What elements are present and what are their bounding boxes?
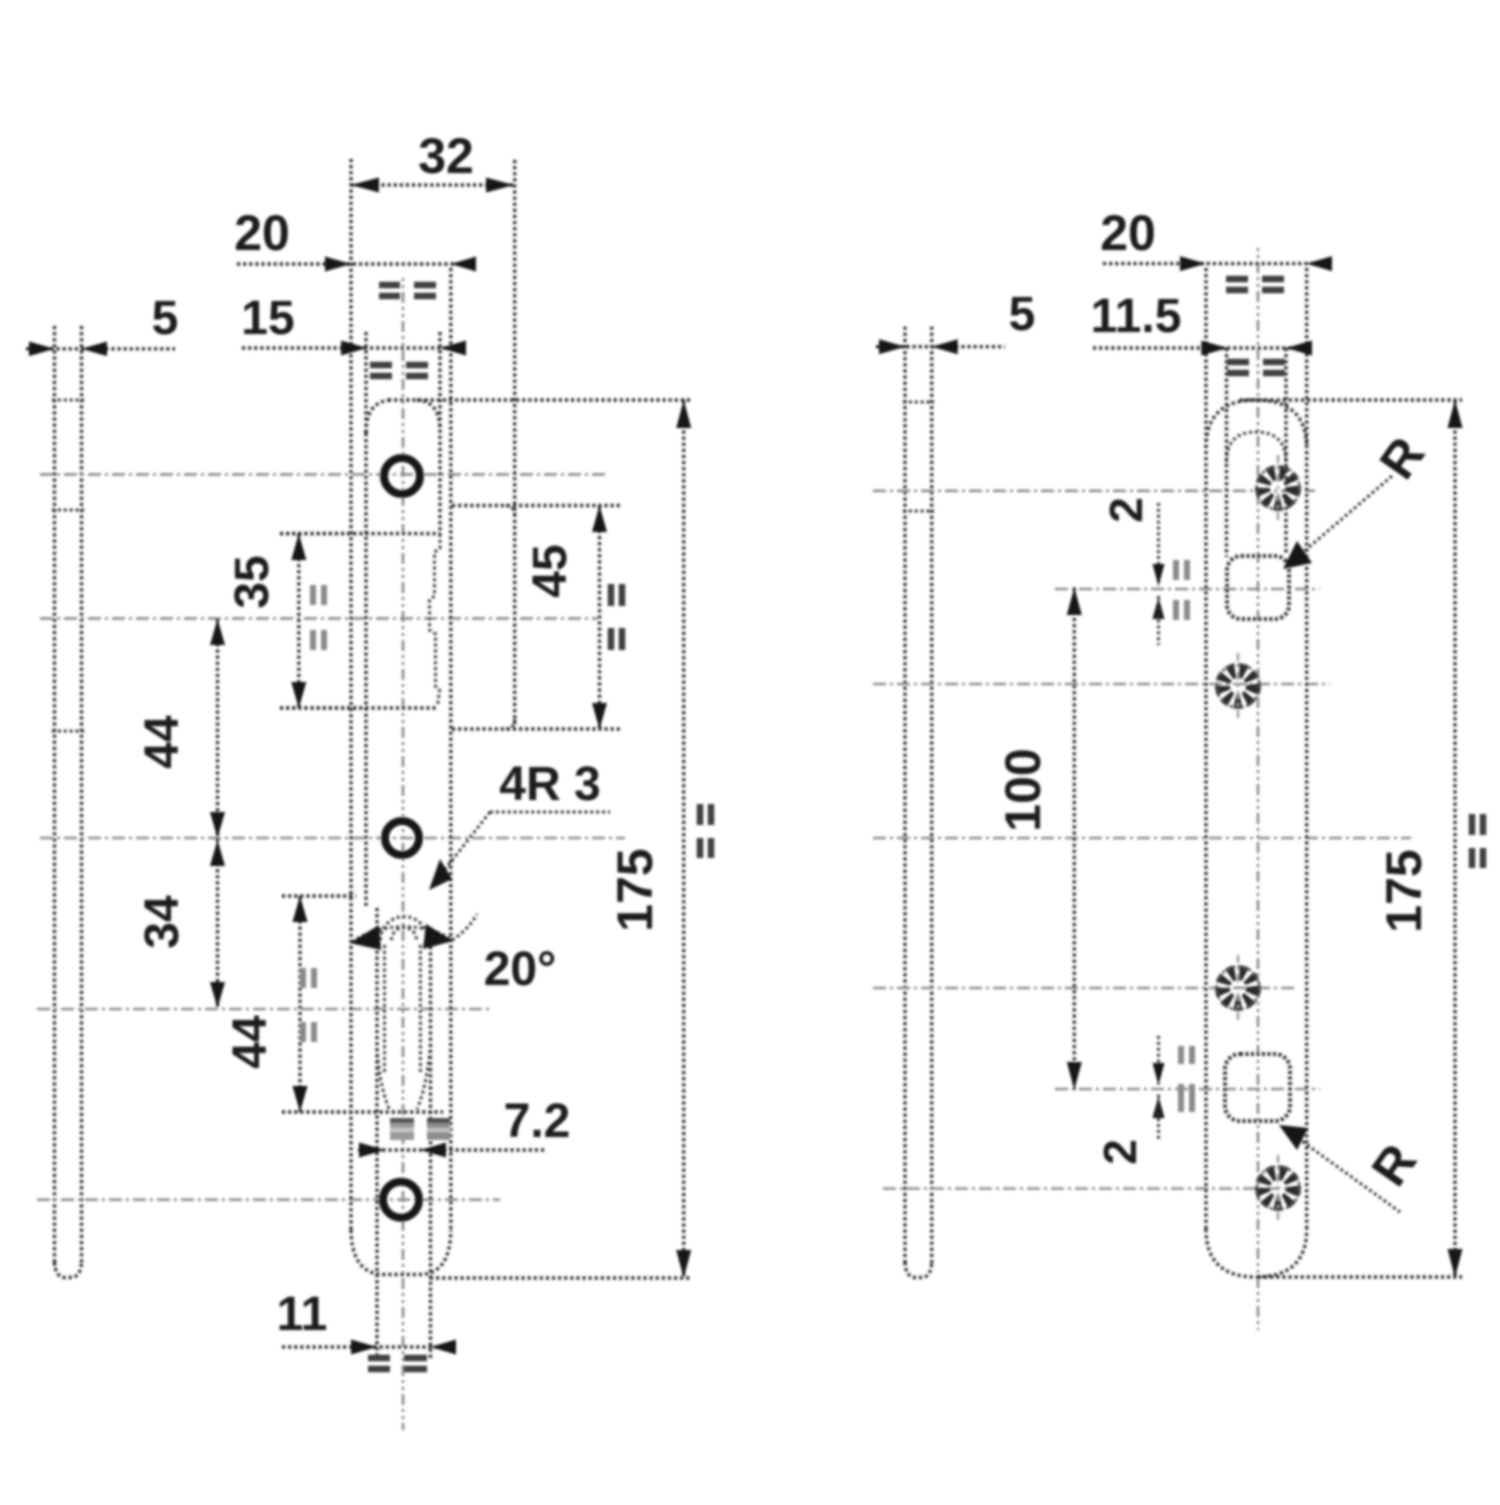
centerline hole3 [37,1008,493,1011]
dim 5 left arrow [29,342,55,357]
right plate outer right edge [1305,268,1308,1230]
cutout top edge y533.6 [280,532,440,535]
slot bottom section hatch right [427,1118,450,1140]
wide corner chamfer bottom [506,719,515,729]
left side view: tick mid upper [52,509,84,512]
plate inner right edge x440 upper [438,332,441,534]
tol marks beside dim 35 [313,585,324,650]
right side view: left edge [903,327,906,1266]
right plate top cap [1206,400,1307,448]
dim 44 lower bottom arrow [293,1086,308,1112]
svg-text:44: 44 [224,1015,277,1069]
right R bottom leader [1288,1131,1400,1212]
right plate bottom cap [1206,1229,1307,1277]
angle arc tail right [452,914,477,940]
plate top-right corner arc [417,400,440,431]
dim 20 right arrow [451,257,476,272]
right screw hole 1 [1257,455,1300,521]
angle left arrowhead [350,925,381,950]
svg-text:2: 2 [1100,497,1152,523]
wide corner chamfer top [506,506,515,517]
right centerline screw3 [873,987,1295,990]
plate top edge / 175 top extension [388,398,690,401]
dim 20 left arrow [325,257,351,272]
right centerline mid [873,837,1411,840]
dim 35 top arrow [291,534,306,560]
right screw hole 3 [1217,955,1260,1021]
centerline mid [40,837,625,840]
dim 32 left arrow [351,178,379,193]
right dim 2 bottom line above [1157,1036,1160,1085]
dim 11 right arrow [431,1340,457,1355]
dim 34 top arrow [210,840,225,866]
right dim 175 line [1453,400,1456,1277]
right slot top cap arc [1227,432,1287,462]
left side view: rounded bottom [55,1262,82,1278]
svg-text:45: 45 [524,544,577,597]
right dim 11.5 left arrow [1201,341,1227,356]
svg-text:20: 20 [234,205,290,261]
right dim 20 right arrow [1306,256,1332,271]
dim 35 extension bottom [280,706,360,709]
svg-text:2: 2 [1094,1139,1146,1165]
tol marks under dim 20 [379,285,436,296]
dim 175 left top arrow [676,400,691,428]
right side view: right edge [930,327,933,1266]
cutout bottom edge y708 [280,706,438,709]
tol marks under right dim 20 [1226,279,1284,290]
wide section top edge y505.5 [452,504,622,507]
dim 11 line [282,1345,455,1348]
dim 15 left arrow [341,341,367,356]
tol marks under dim 11 [368,1358,427,1369]
dim 45 line [598,506,601,730]
dim 7.2 right arrow [420,1143,446,1158]
latch bump outer arc [381,917,428,941]
right centerline circle bottom [1055,1088,1320,1091]
right dim 2 top up arrow [1153,597,1165,619]
plate inner left edge x366 [364,332,367,433]
svg-text:20°: 20° [484,943,557,996]
right dim 175 top extension [1240,398,1462,401]
right top square hole (R corner) [1227,556,1289,619]
plate outer right edge x450.8 [449,268,452,1232]
left side view: left edge line [53,326,56,1266]
wide section bottom edge y729 [452,727,622,730]
right R top arrowhead [1283,541,1312,569]
dim 35 extension top [280,532,356,535]
4R3 leader arrowhead [429,859,452,890]
plate top-left corner arc [366,400,393,433]
slot bottom section hatch left [390,1118,414,1140]
svg-text:175: 175 [607,848,663,931]
dim 44 lower line [298,896,301,1112]
right side view tick mid [903,510,934,513]
right slot top left line [1225,348,1228,557]
dim 44 lower extension bottom [282,1110,443,1113]
right side view: rounded bottom [905,1262,932,1278]
dim 7.2 left arrow [359,1143,385,1158]
svg-text:32: 32 [418,128,474,184]
middle hole ring [385,821,419,855]
right centerline hole top screw [873,489,1315,492]
right dim 5 line [876,345,1005,348]
right dim 20 left arrow [1180,256,1206,271]
slot outer left x377 [375,908,378,1358]
dim 5 right arrow [82,342,108,357]
angle 20 deg arc [352,927,452,942]
dim 15 line [242,346,464,349]
slot inner left x384.5 [383,945,386,1072]
slot outer right x430.5 [429,940,432,1358]
slot inner right x420.4 [419,945,422,1072]
dim 45 bottom arrow [592,703,607,729]
right dim 5 left arrow [879,339,905,354]
right plate outer left edge [1204,268,1207,1230]
dim 44 upper bottom arrow [210,812,225,838]
right dim 2 bottom down arrow [1153,1063,1165,1085]
svg-text:15: 15 [241,292,294,345]
right dim 2 top line [1157,503,1160,586]
svg-text:20: 20 [1100,205,1156,261]
right centerline screw4 [883,1187,1298,1190]
dim 20 line [237,262,476,265]
centerline hole4 [37,1198,500,1201]
slot funnel right [417,1044,431,1109]
plate bottom cap [351,1230,451,1275]
right dim 2 bottom up arrow [1153,1096,1165,1118]
centerline hole1 [40,473,607,476]
grey tol marks beside bottom 2 [1181,1046,1192,1112]
right screw hole 2 [1217,653,1260,719]
svg-text:5: 5 [152,292,179,345]
dim 32 right arrow [486,178,514,193]
right dim 175 bottom extension [1258,1275,1462,1278]
slot funnel left [377,1048,390,1111]
cutout wavy break edge [430,534,441,706]
right dim 175 top arrow [1448,400,1463,428]
plate outer left edge x351 [349,159,352,1232]
dim 11 left arrow [351,1340,377,1355]
svg-text:100: 100 [995,748,1051,831]
dim 44 lower top arrow [293,896,308,922]
right R bottom arrowhead [1279,1125,1308,1150]
latch bump inner arc [392,927,417,940]
dim 45 top arrow [592,506,607,533]
centerline hole2 [40,617,598,620]
right dim 5 right arrow [932,339,958,354]
right dim 11.5 right arrow [1286,341,1312,356]
svg-text:7.2: 7.2 [504,1095,571,1148]
right screw hole 4 [1257,1155,1300,1221]
tol marks beside right 175 [1472,814,1483,868]
svg-text:44: 44 [136,715,189,769]
angle right arrowhead [423,924,453,949]
vertical centerline left plate [402,278,405,1430]
right dim 100 bottom arrow [1067,1062,1082,1090]
tol marks beside dim 45 [611,584,622,650]
svg-text:5: 5 [1009,288,1036,341]
dim 15 right arrow [440,341,466,356]
svg-text:11.5: 11.5 [1091,290,1182,343]
dim 7.2 line [358,1148,545,1151]
right dim 100 top arrow [1067,588,1082,616]
tol marks beside dim 175 left [700,804,711,858]
dim 175 left bottom extension [430,1276,690,1279]
dim 35 line [297,534,300,708]
right dim 2 top line below [1157,596,1160,645]
svg-text:11: 11 [277,1288,328,1341]
right dim 175 bottom arrow [1448,1249,1463,1277]
dim 34 bottom arrow [210,982,225,1008]
right R top leader [1294,476,1392,560]
4R3 leader horizontal [490,811,610,814]
dim 32 line [351,183,514,186]
right slot top right line [1284,348,1287,553]
svg-text:34: 34 [136,895,189,949]
right dim 100 line [1073,588,1076,1090]
tol marks under dim 15 [370,365,428,376]
svg-text:175: 175 [1376,849,1432,932]
dim 175 left bottom arrow [676,1250,691,1278]
right vertical centerline [1257,248,1260,1330]
right dim 20 line [1103,262,1332,265]
left side view: right edge line [80,326,83,1266]
dim 44 upper line [216,619,219,1008]
right dim 2 top down arrow [1153,564,1165,586]
right dim 2 bottom line below [1157,1095,1160,1140]
right side view tick top [903,401,934,404]
tol marks beside lower 44 [303,968,314,1042]
left side view: tick mid [52,730,84,733]
left side view: tick at plate top [52,399,84,402]
dim 44 upper top arrow [210,619,225,645]
dim 5 line [26,347,175,350]
right centerline circle top [1055,588,1320,591]
tol marks under right dim 11.5 [1227,362,1285,373]
svg-text:35: 35 [226,555,279,608]
plate wide-section right edge x514.7 [513,160,516,726]
4R3 leader diagonal [435,812,490,882]
grey tol marks beside top 2 [1176,560,1187,620]
svg-text:4R 3: 4R 3 [499,758,600,811]
top hole ring [384,458,420,494]
right dim 11.5 line [1093,346,1310,349]
bottom hole ring [383,1182,419,1218]
right centerline screw2 [873,683,1330,686]
dim 35 bottom arrow [291,682,306,708]
dim 44 lower extension top [282,894,356,897]
dim 175 left line [682,400,685,1278]
right bottom square hole (R corner) [1225,1054,1290,1121]
